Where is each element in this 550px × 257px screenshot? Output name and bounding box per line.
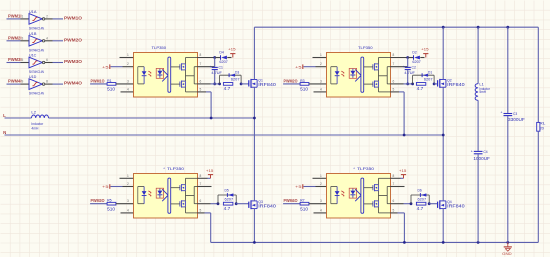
power port +15 bbox=[206, 168, 214, 178]
pin 6 wire bbox=[391, 79, 413, 84]
opto amplifier chevron bbox=[162, 69, 168, 81]
resistor gate 4.7 bbox=[223, 83, 232, 92]
net label PWM3O bbox=[64, 59, 83, 64]
junction gate network left bbox=[217, 202, 220, 205]
wire input U1C bbox=[7, 58, 30, 62]
resistor R5 510 bbox=[90, 199, 116, 212]
svg-text:D1: D1 bbox=[428, 71, 432, 75]
wire +5 to pin 2 bbox=[111, 182, 134, 187]
opto internal wires bbox=[171, 178, 198, 213]
optocoupler U TLP350 body at x=133 bbox=[134, 166, 198, 218]
svg-text:+5: +5 bbox=[102, 64, 110, 69]
inverter U1D (SN74HC14N) bbox=[29, 74, 45, 96]
svg-text:PWM3I: PWM3I bbox=[8, 57, 22, 62]
wire to gate bbox=[429, 203, 437, 205]
svg-text:IRF840: IRF840 bbox=[447, 204, 465, 209]
diode D5 6207 (gate, parallel) bbox=[218, 189, 236, 204]
opto amplifier chevron bbox=[162, 189, 168, 201]
svg-text:1: 1 bbox=[320, 53, 322, 57]
svg-text:R5: R5 bbox=[107, 199, 112, 203]
svg-text:8: 8 bbox=[393, 174, 395, 178]
junction gate network right bbox=[433, 83, 436, 86]
wire +5 to pin 2 bbox=[111, 62, 134, 67]
opto output transistor bbox=[180, 63, 186, 70]
wire C3 to bottom rail bbox=[507, 116, 509, 242]
resistor gate 4.7 bbox=[416, 83, 425, 92]
opto light arrows bbox=[148, 71, 151, 77]
net label PWM3O bbox=[91, 198, 106, 203]
opto output transistor bbox=[180, 184, 186, 191]
pin 6 wire bbox=[198, 199, 219, 204]
svg-text:2: 2 bbox=[320, 62, 322, 66]
opto internal LED bbox=[331, 187, 340, 204]
net label PWM4O bbox=[64, 81, 83, 86]
pin 8 wire bbox=[198, 174, 211, 179]
capacitor C1 4.7UF bbox=[209, 58, 223, 84]
opto output transistor bbox=[180, 200, 186, 207]
node B junctions bbox=[403, 134, 445, 137]
svg-text:1000UF: 1000UF bbox=[473, 156, 490, 161]
junction cap/pin6 node bbox=[213, 83, 216, 86]
net label PWM4O bbox=[284, 198, 299, 203]
svg-text:PWM1O: PWM1O bbox=[91, 78, 106, 83]
power port +15 bbox=[399, 168, 407, 178]
svg-text:5: 5 bbox=[393, 208, 395, 212]
net label L bbox=[3, 113, 6, 118]
pin 5 wire bbox=[198, 208, 211, 213]
svg-text:2: 2 bbox=[127, 182, 129, 186]
svg-text:4mH: 4mH bbox=[31, 126, 38, 130]
pin 5 wire bbox=[391, 208, 405, 213]
opto internal LED bbox=[331, 67, 340, 84]
resistor R3 510 bbox=[283, 79, 309, 92]
wire RL to bottom rail bbox=[537, 131, 539, 242]
svg-text:6: 6 bbox=[46, 58, 48, 62]
net label PWM1I bbox=[8, 14, 22, 19]
junction gate network right bbox=[240, 83, 243, 86]
opto amplifier chevron bbox=[355, 69, 361, 81]
net label PWM1O bbox=[91, 78, 106, 83]
net label PWM2I bbox=[8, 35, 22, 40]
svg-text:D4: D4 bbox=[219, 51, 224, 55]
junction pin8 node bbox=[406, 56, 409, 59]
opto light arrows bbox=[341, 71, 344, 77]
svg-text:PWM2I: PWM2I bbox=[8, 35, 22, 40]
opto amplifier chevron bbox=[355, 189, 361, 201]
svg-text:R7: R7 bbox=[300, 199, 305, 203]
svg-text:U1A: U1A bbox=[29, 9, 37, 14]
opto internal LED bbox=[138, 187, 147, 204]
svg-text:+: + bbox=[500, 110, 502, 114]
net label PWM1O bbox=[64, 16, 83, 21]
svg-text:+15: +15 bbox=[399, 168, 407, 173]
wire output U1D bbox=[45, 80, 63, 84]
svg-text:U1B: U1B bbox=[29, 31, 37, 36]
svg-text:8: 8 bbox=[46, 80, 48, 84]
pin 1 stub bbox=[120, 53, 134, 58]
resistor R1 510 bbox=[90, 79, 116, 92]
resistor RL 20 bbox=[537, 122, 546, 132]
svg-text:510: 510 bbox=[107, 207, 116, 212]
svg-text:TLP350: TLP350 bbox=[357, 166, 375, 171]
optocoupler U TLP350 body at x=133 bbox=[134, 45, 198, 97]
pin 4 stub bbox=[314, 208, 327, 213]
net label N bbox=[3, 130, 6, 135]
power port +5 bbox=[102, 64, 110, 69]
pin 7 stub bbox=[198, 182, 212, 187]
wire neutral N (node B) bbox=[5, 134, 444, 136]
svg-text:9: 9 bbox=[22, 80, 24, 84]
svg-text:6207: 6207 bbox=[418, 198, 427, 202]
svg-text:PWM4O: PWM4O bbox=[284, 198, 299, 203]
junction gate network right bbox=[428, 202, 431, 205]
svg-text:7: 7 bbox=[393, 62, 395, 66]
pin 8 wire bbox=[391, 174, 404, 179]
svg-text:510: 510 bbox=[300, 87, 309, 92]
wire output U1C bbox=[45, 58, 63, 62]
wire right bus (Q2 drain / Q4 drain) bbox=[442, 27, 444, 242]
svg-text:D5: D5 bbox=[225, 189, 229, 193]
wire RL branch top bbox=[537, 27, 539, 122]
opto internal wires bbox=[364, 178, 391, 213]
svg-text:IRF840: IRF840 bbox=[258, 204, 276, 209]
opto photodiode bbox=[349, 188, 356, 198]
pin 6 wire bbox=[198, 79, 220, 84]
svg-text:4.7: 4.7 bbox=[417, 206, 424, 211]
svg-text:PWM4I: PWM4I bbox=[8, 79, 22, 84]
svg-text:TLP350: TLP350 bbox=[152, 45, 167, 50]
svg-text:3: 3 bbox=[127, 199, 129, 203]
pin 3 stub bbox=[116, 79, 134, 84]
svg-text:PWM3O: PWM3O bbox=[91, 198, 106, 203]
svg-text:+: + bbox=[209, 65, 211, 69]
opto output transistor bbox=[373, 63, 379, 70]
optocoupler U TLP350 body at x=326 bbox=[327, 166, 391, 218]
opto output transistor bbox=[373, 81, 379, 88]
wire C3 branch top bbox=[507, 27, 509, 113]
opto photodiode bbox=[349, 68, 356, 78]
power port +5 bbox=[295, 64, 303, 69]
svg-text:+5: +5 bbox=[102, 184, 110, 189]
svg-text:+15: +15 bbox=[421, 47, 429, 52]
opto internal LED bbox=[138, 67, 147, 84]
pin 4 stub bbox=[314, 87, 327, 92]
svg-text:PWM2O: PWM2O bbox=[284, 78, 299, 83]
pin 4 stub bbox=[121, 87, 134, 92]
svg-text:2: 2 bbox=[320, 182, 322, 186]
svg-text:IRF840: IRF840 bbox=[258, 82, 276, 87]
svg-text:GND: GND bbox=[502, 252, 512, 256]
pin 4 stub bbox=[121, 208, 134, 213]
svg-text:TLP350: TLP350 bbox=[167, 166, 185, 171]
svg-text:C1: C1 bbox=[219, 65, 224, 69]
svg-text:D3: D3 bbox=[235, 71, 239, 75]
svg-text:PWM1I: PWM1I bbox=[8, 14, 22, 19]
pin 3 stub bbox=[309, 79, 327, 84]
svg-text:6207: 6207 bbox=[412, 60, 420, 64]
resistor gate 4.7 bbox=[416, 202, 426, 211]
power port +15 bbox=[228, 47, 236, 58]
transistor Q3 IRF840 bbox=[249, 200, 277, 209]
svg-text:6207: 6207 bbox=[219, 60, 227, 64]
svg-text:+5: +5 bbox=[295, 64, 303, 69]
pin 1 stub bbox=[313, 53, 327, 58]
net label PWM4I bbox=[8, 79, 22, 84]
svg-text:5mH: 5mH bbox=[479, 90, 486, 94]
opto gate bar bbox=[361, 57, 364, 92]
svg-text:R3: R3 bbox=[300, 79, 305, 83]
optocoupler U TLP350 body at x=326 bbox=[327, 45, 391, 97]
svg-text:20: 20 bbox=[539, 127, 544, 131]
wire top rail bbox=[254, 26, 538, 28]
svg-text:3: 3 bbox=[320, 199, 322, 203]
svg-text:7: 7 bbox=[200, 62, 202, 66]
wire Q1 source down to node A bbox=[210, 92, 212, 118]
svg-text:PWM3O: PWM3O bbox=[64, 59, 83, 64]
opto internal wires bbox=[364, 58, 391, 92]
capacitor C3 3300UF bbox=[500, 110, 525, 122]
wire input U1A bbox=[7, 15, 30, 19]
opto light arrows bbox=[148, 191, 151, 197]
inverter U1C (SN74HC14N) bbox=[29, 53, 45, 75]
ground GND bbox=[502, 242, 512, 256]
svg-text:TLP350: TLP350 bbox=[358, 45, 373, 50]
svg-text:4.7UF: 4.7UF bbox=[404, 71, 415, 75]
pin 7 stub bbox=[391, 182, 405, 187]
power port +5 bbox=[295, 184, 303, 189]
pin 3 stub bbox=[116, 199, 134, 204]
svg-text:RL: RL bbox=[539, 122, 545, 126]
svg-text:U1D: U1D bbox=[29, 74, 37, 79]
opto gate bar bbox=[361, 178, 364, 213]
wire L1 branch top bbox=[477, 27, 479, 83]
svg-text:+: + bbox=[402, 65, 404, 69]
power port +5 bbox=[102, 184, 110, 189]
svg-text:4.7: 4.7 bbox=[224, 86, 231, 91]
svg-text:6: 6 bbox=[200, 79, 202, 83]
wire to gate bbox=[434, 83, 438, 85]
power port +15 bbox=[421, 47, 429, 58]
svg-text:2: 2 bbox=[127, 62, 129, 66]
svg-text:6207: 6207 bbox=[231, 77, 240, 81]
junction gate network left bbox=[218, 83, 221, 86]
svg-text:6: 6 bbox=[200, 199, 202, 203]
wire to gate bbox=[241, 83, 249, 85]
svg-text:IRF840: IRF840 bbox=[447, 82, 465, 87]
svg-text:1: 1 bbox=[127, 174, 129, 178]
pin 7 wire bbox=[391, 62, 408, 67]
svg-text:5: 5 bbox=[22, 58, 24, 62]
capacitor C4 1000UF bbox=[471, 149, 491, 161]
svg-text:+5: +5 bbox=[295, 184, 303, 189]
net label PWM2O bbox=[284, 78, 299, 83]
wire output U1B bbox=[45, 36, 63, 40]
diode D1 6207 (gate, parallel) bbox=[413, 71, 435, 84]
diode D6 6207 (gate, parallel) bbox=[411, 189, 429, 204]
svg-text:510: 510 bbox=[300, 207, 309, 212]
svg-text:C2: C2 bbox=[412, 65, 417, 69]
svg-text:4: 4 bbox=[127, 208, 129, 212]
svg-text:L2: L2 bbox=[31, 111, 36, 115]
pin 1 stub bbox=[313, 174, 327, 179]
svg-text:1: 1 bbox=[127, 53, 129, 57]
wire L1 to C4 bbox=[477, 100, 479, 151]
resistor R7 510 bbox=[283, 199, 309, 212]
opto gate bar bbox=[168, 57, 171, 92]
opto output transistor bbox=[373, 200, 379, 207]
node top-bus junctions bbox=[442, 26, 509, 29]
svg-text:5: 5 bbox=[200, 87, 202, 91]
transistor Q2 IRF840 bbox=[438, 79, 466, 88]
svg-text:3: 3 bbox=[22, 36, 24, 40]
diode D3 6207 (gate, parallel) bbox=[220, 71, 242, 84]
svg-text:R1: R1 bbox=[107, 79, 112, 83]
svg-text:4.7: 4.7 bbox=[417, 86, 424, 91]
pin 5 wire bbox=[391, 87, 405, 92]
pin 8 wire bbox=[391, 53, 408, 58]
svg-text:N: N bbox=[3, 130, 6, 135]
svg-text:D2: D2 bbox=[412, 51, 417, 55]
wire bottom rail bbox=[211, 241, 539, 243]
svg-text:8: 8 bbox=[393, 53, 395, 57]
svg-text:C3: C3 bbox=[513, 112, 517, 116]
svg-text:6207: 6207 bbox=[225, 198, 234, 202]
svg-text:4: 4 bbox=[320, 87, 322, 91]
svg-text:5: 5 bbox=[393, 87, 395, 91]
pin 5 wire bbox=[198, 87, 212, 92]
diode D4 6207 bbox=[215, 51, 232, 64]
junction gate network left bbox=[411, 83, 414, 86]
wire stage3 pin5 down to bottom rail bbox=[210, 213, 212, 243]
transistor Q1 IRF840 bbox=[249, 79, 277, 88]
resistor gate 4.7 bbox=[223, 202, 233, 211]
pin 1 stub bbox=[120, 174, 134, 179]
svg-text:L: L bbox=[3, 113, 6, 118]
node bottom-rail junctions bbox=[253, 241, 509, 244]
svg-text:8: 8 bbox=[200, 53, 202, 57]
svg-text:SN74HC14N: SN74HC14N bbox=[29, 91, 44, 96]
opto gate bar bbox=[168, 178, 171, 213]
pin 6 wire bbox=[391, 199, 412, 204]
wire input U1B bbox=[7, 36, 30, 40]
svg-text:4: 4 bbox=[320, 208, 322, 212]
svg-text:7: 7 bbox=[393, 182, 395, 186]
svg-text:6: 6 bbox=[393, 199, 395, 203]
inverter U1A (SN74HC14N) bbox=[29, 9, 45, 31]
node A junctions bbox=[210, 117, 256, 120]
svg-text:1: 1 bbox=[22, 15, 24, 19]
junction cap/pin6 node bbox=[406, 83, 409, 86]
opto light arrows bbox=[341, 191, 344, 197]
wire stage2 pin5 down to node B bbox=[403, 92, 405, 135]
transistor Q4 IRF840 bbox=[438, 200, 466, 209]
svg-text:4: 4 bbox=[46, 36, 48, 40]
svg-text:1: 1 bbox=[320, 174, 322, 178]
inductor L1 5mH bbox=[475, 83, 491, 101]
svg-text:4: 4 bbox=[127, 87, 129, 91]
junction gate network right bbox=[235, 202, 238, 205]
svg-text:6207: 6207 bbox=[424, 77, 433, 81]
svg-text:8: 8 bbox=[200, 174, 202, 178]
junction pin8 node bbox=[213, 56, 216, 59]
svg-text:D6: D6 bbox=[418, 189, 422, 193]
capacitor C2 4.7UF bbox=[402, 58, 416, 84]
wire +5 to pin 2 bbox=[304, 182, 327, 187]
svg-text:3300UF: 3300UF bbox=[508, 117, 525, 122]
svg-text:510: 510 bbox=[107, 87, 116, 92]
opto output transistor bbox=[180, 81, 186, 88]
opto output transistor bbox=[373, 184, 379, 191]
svg-text:2: 2 bbox=[46, 15, 48, 19]
net label PWM3I bbox=[8, 57, 22, 62]
wire +5 to pin 2 bbox=[304, 62, 327, 67]
wire left bus (Q1 drain / Q3 drain) bbox=[253, 27, 255, 242]
opto photodiode bbox=[156, 188, 163, 198]
svg-text:SN74HC14N: SN74HC14N bbox=[29, 26, 44, 31]
opto photodiode bbox=[156, 68, 163, 78]
pin 8 wire bbox=[198, 53, 215, 58]
junction gate network left bbox=[410, 202, 413, 205]
svg-text:6: 6 bbox=[393, 79, 395, 83]
wire stage4 pin5 down to bottom rail bbox=[403, 213, 405, 243]
svg-text:5: 5 bbox=[200, 208, 202, 212]
opto internal wires bbox=[171, 58, 198, 92]
wire phase L (node A) bbox=[5, 117, 255, 119]
svg-text:7: 7 bbox=[200, 182, 202, 186]
net label PWM2O bbox=[64, 37, 83, 42]
svg-text:+15: +15 bbox=[228, 47, 236, 52]
pin 3 stub bbox=[309, 199, 327, 204]
wire input U1D bbox=[7, 80, 30, 84]
svg-text:PWM4O: PWM4O bbox=[64, 81, 83, 86]
wire output U1A bbox=[45, 15, 63, 19]
wire to gate bbox=[236, 203, 249, 205]
inductor L2 4mH bbox=[31, 111, 48, 131]
svg-text:3: 3 bbox=[320, 79, 322, 83]
svg-text:4.7UF: 4.7UF bbox=[211, 71, 222, 75]
svg-text:+15: +15 bbox=[206, 168, 214, 173]
wire C4 to bottom rail bbox=[477, 154, 479, 242]
svg-text:U1C: U1C bbox=[29, 53, 37, 58]
svg-text:4.7: 4.7 bbox=[224, 206, 231, 211]
inverter U1B (SN74HC14N) bbox=[29, 31, 45, 53]
svg-text:PWM2O: PWM2O bbox=[64, 37, 83, 42]
pin 7 wire bbox=[198, 62, 215, 67]
diode D2 6207 bbox=[408, 51, 425, 64]
svg-text:+: + bbox=[471, 149, 473, 153]
svg-text:C4: C4 bbox=[483, 150, 487, 154]
svg-text:PWM1O: PWM1O bbox=[64, 16, 83, 21]
svg-text:3: 3 bbox=[127, 79, 129, 83]
